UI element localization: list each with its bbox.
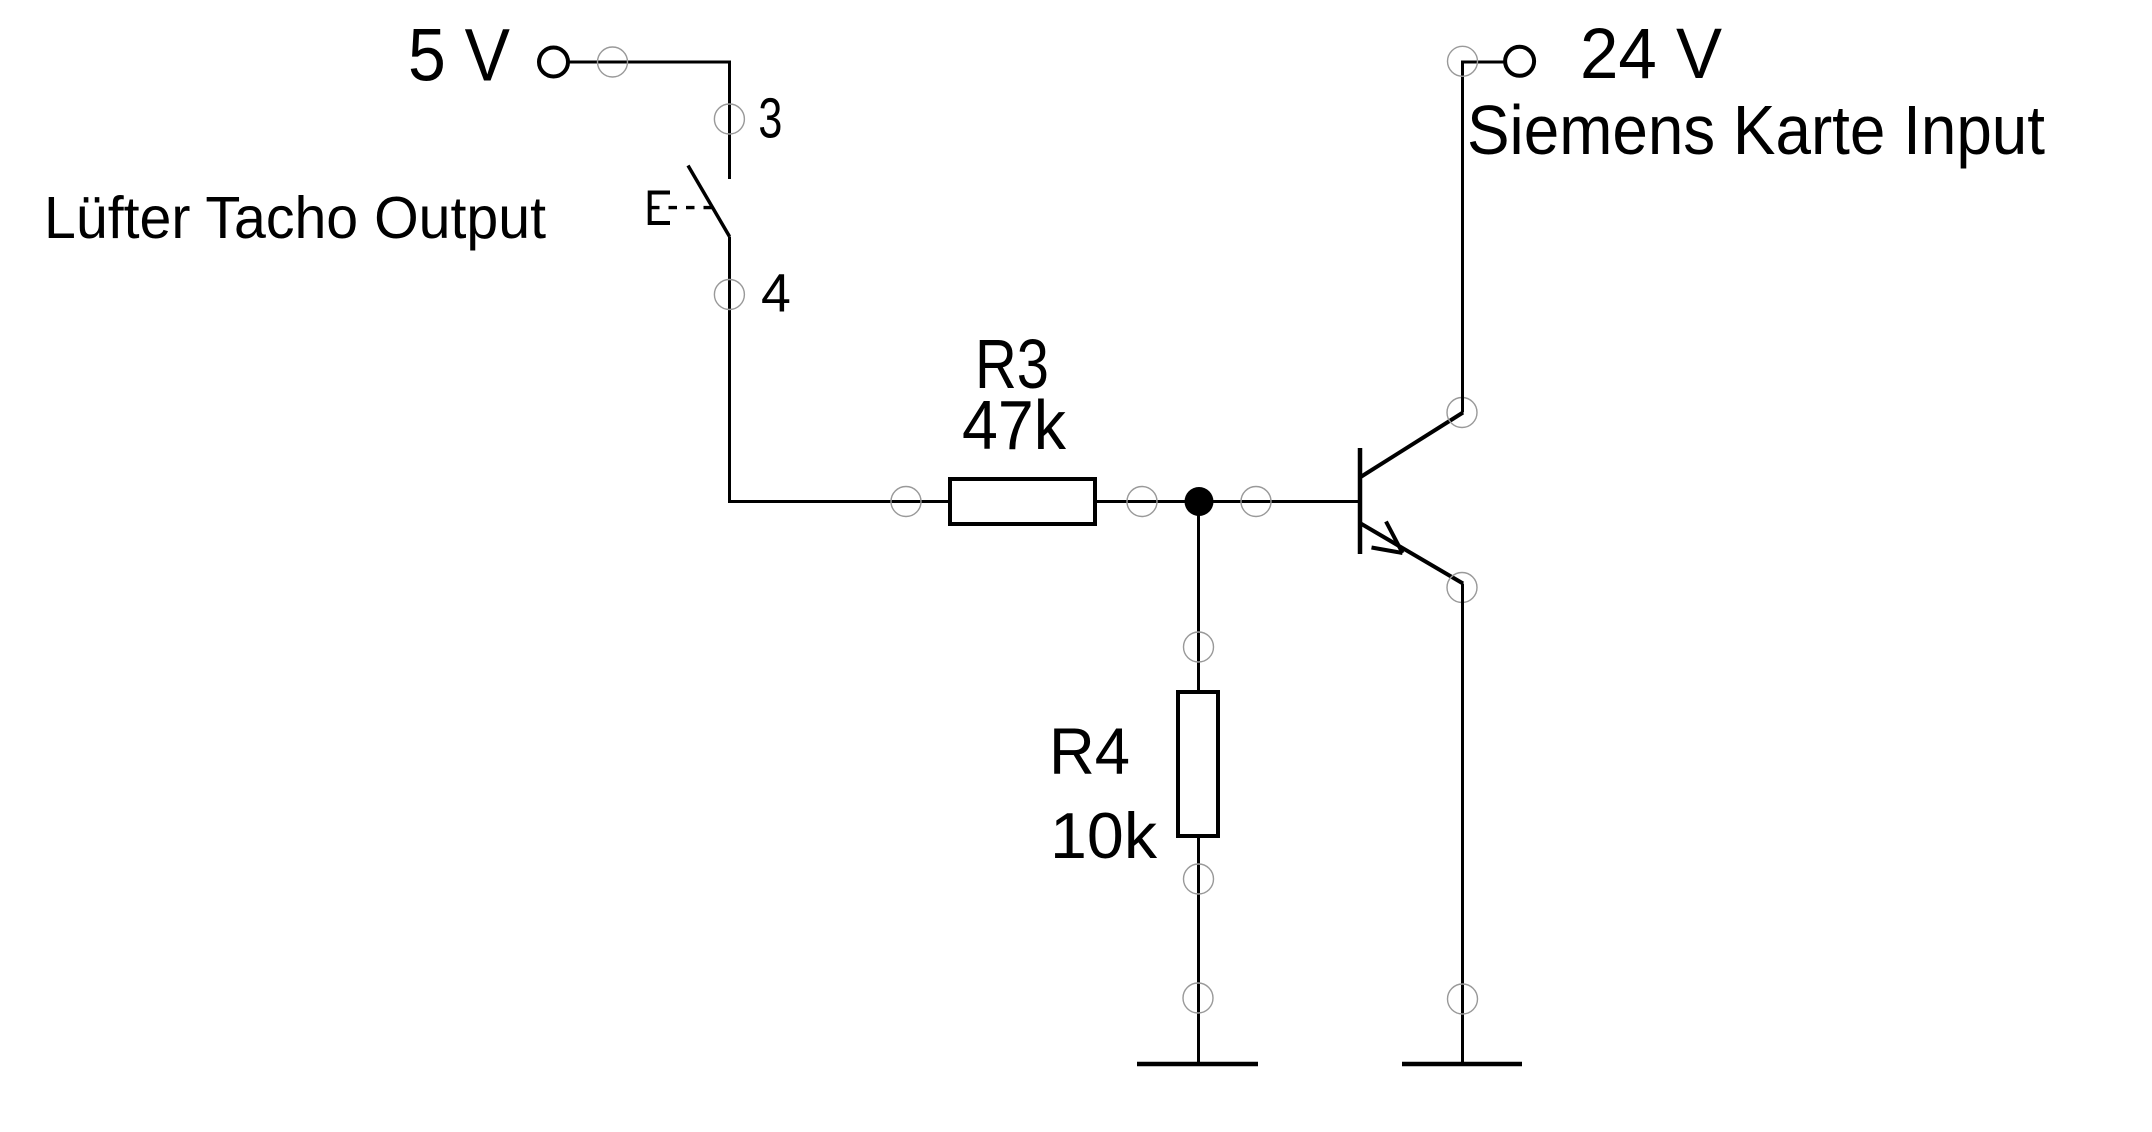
node marker below R4 (1184, 864, 1214, 894)
svg-text:Lüfter Tacho Output: Lüfter Tacho Output (44, 184, 546, 251)
wire junction down to R4 (1197, 502, 1200, 693)
svg-text:R4: R4 (1049, 715, 1130, 788)
wire collector up to 24V corner (1463, 62, 1506, 413)
node marker pin 4 (714, 280, 744, 310)
switch S1 actuator dashed link (651, 206, 712, 209)
svg-text:4: 4 (761, 264, 791, 324)
svg-text:10k: 10k (1050, 799, 1158, 872)
switch S1 blade (688, 166, 730, 237)
node marker above left ground (1183, 983, 1213, 1013)
wire R3 to transistor base (1095, 500, 1358, 503)
resistor R4 body (1178, 692, 1218, 836)
transistor Q1 collector stroke (1359, 413, 1463, 479)
terminal 5V (539, 48, 568, 77)
node marker on 5V wire (598, 47, 628, 77)
transistor Q1 emitter stroke (1359, 523, 1463, 584)
wire R4 to ground (1197, 836, 1200, 1064)
wire 5V terminal to corner (568, 62, 730, 179)
svg-text:Siemens Karte Input: Siemens Karte Input (1467, 91, 2045, 169)
terminal 24V (1505, 47, 1534, 76)
svg-text:47k: 47k (962, 386, 1066, 464)
node marker right of junction (1241, 487, 1271, 517)
node marker above right ground (1448, 984, 1478, 1014)
node marker left of R3 (891, 487, 921, 517)
resistor R3 body (950, 479, 1095, 524)
svg-text:5 V: 5 V (408, 14, 510, 97)
junction node (1185, 487, 1214, 516)
transistor Q1 base bar (1358, 448, 1363, 554)
transistor Q1 emitter arrow (1372, 522, 1403, 554)
node marker emitter (1447, 573, 1477, 603)
svg-text:3: 3 (758, 87, 782, 150)
node marker right of R3 (1127, 487, 1157, 517)
node marker collector (1447, 398, 1477, 428)
node marker above R4 (1184, 632, 1214, 662)
wire switch to corner to R3 (730, 237, 949, 502)
node marker pin 3 (714, 104, 744, 134)
ground left (1137, 1062, 1258, 1067)
ground right (1402, 1062, 1522, 1067)
switch S1 actuator E bracket (648, 191, 670, 226)
svg-text:24 V: 24 V (1580, 14, 1722, 94)
wire emitter down to ground (1461, 584, 1464, 1065)
node marker 24V corner (1448, 46, 1478, 76)
